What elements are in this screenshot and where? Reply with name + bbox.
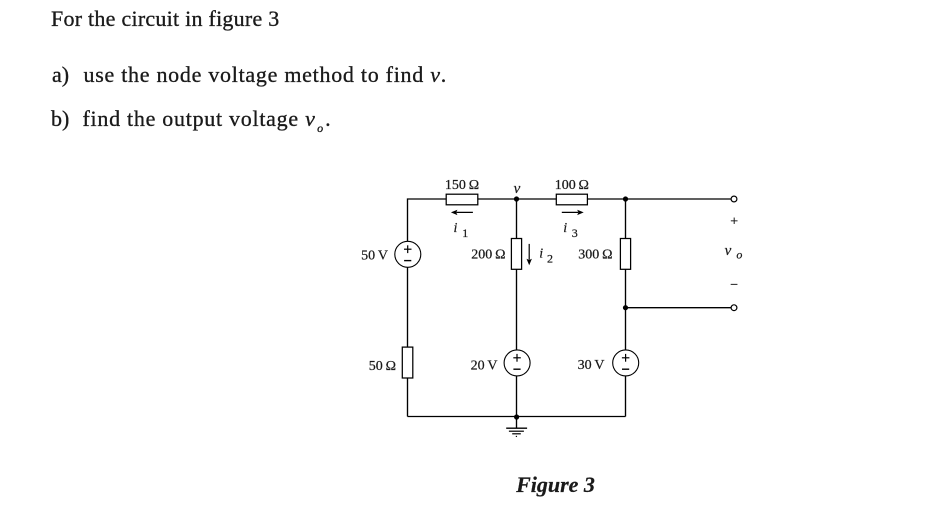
wire 100ohm to right junction	[587, 198, 625, 200]
wire 300ohm to lower junction	[625, 269, 627, 307]
current label i2	[539, 246, 553, 265]
svg-text:20 V: 20 V	[471, 358, 498, 373]
junction dot top right	[623, 196, 628, 201]
wire node v down to 200ohm	[516, 199, 518, 239]
svg-text:200 Ω: 200 Ω	[471, 248, 505, 263]
svg-text:100 Ω: 100 Ω	[555, 178, 589, 193]
node v junction dot	[514, 196, 519, 201]
svg-text:300 Ω: 300 Ω	[578, 248, 612, 263]
voltage source V3 30V circle	[613, 350, 639, 376]
item b	[51, 106, 69, 132]
wire right junction to output terminal	[626, 198, 732, 200]
svg-text:30 V: 30 V	[578, 358, 605, 373]
output terminal bottom	[731, 305, 737, 311]
wire 50ohm to bottom rail	[407, 378, 409, 417]
wire node v to 100ohm	[517, 198, 557, 200]
wire 200ohm to 20V source	[516, 269, 518, 350]
voltage source V1 50V circle	[395, 241, 421, 267]
resistor R1 150ohm box	[446, 194, 478, 205]
current arrow i3	[562, 210, 584, 215]
wire 30V source to bottom rail	[625, 376, 627, 417]
svg-text:+: +	[730, 215, 738, 230]
svg-text:3: 3	[572, 226, 578, 240]
svg-text:o: o	[736, 247, 742, 261]
resistor R5 50ohm box	[402, 347, 413, 378]
wire lower junction to 30V source	[625, 308, 627, 350]
current arrow i2	[527, 244, 532, 265]
current label i3	[563, 221, 578, 240]
svg-text:Figure 3: Figure 3	[515, 472, 595, 497]
svg-text:v: v	[514, 181, 521, 197]
output label vo	[725, 243, 743, 261]
wire bottom rail	[408, 416, 626, 418]
junction dot bottom middle	[514, 414, 519, 419]
svg-text:i: i	[563, 221, 567, 236]
svg-text:50 V: 50 V	[361, 248, 388, 263]
wire lower junction to lower output terminal	[626, 307, 732, 309]
voltage source V2 20V circle	[504, 350, 530, 376]
current arrow i1	[451, 210, 473, 215]
svg-text:50 Ω: 50 Ω	[369, 359, 396, 374]
ground symbol	[506, 417, 527, 438]
output terminal top	[731, 196, 737, 202]
svg-text:150 Ω: 150 Ω	[445, 178, 479, 193]
wire 20V source to bottom rail	[516, 376, 518, 417]
current label i1	[454, 221, 469, 240]
svg-text:i: i	[454, 221, 458, 236]
svg-text:2: 2	[547, 251, 553, 265]
wire 150ohm to node v	[478, 198, 517, 200]
wire top-left horizontal	[408, 199, 447, 242]
svg-text:i: i	[539, 246, 543, 261]
resistor R3 100ohm box	[556, 194, 587, 205]
svg-text:v: v	[725, 243, 732, 259]
heading line 1	[51, 6, 280, 32]
svg-text:−: −	[730, 278, 738, 293]
junction dot lower right	[623, 305, 628, 310]
resistor R4 300ohm box	[620, 239, 630, 270]
wire right junction down to 300ohm	[625, 199, 627, 239]
resistor R2 200ohm box	[511, 239, 521, 270]
item a	[52, 62, 69, 88]
svg-text:1: 1	[462, 226, 468, 240]
wire 50V source to 50ohm resistor	[407, 267, 409, 347]
